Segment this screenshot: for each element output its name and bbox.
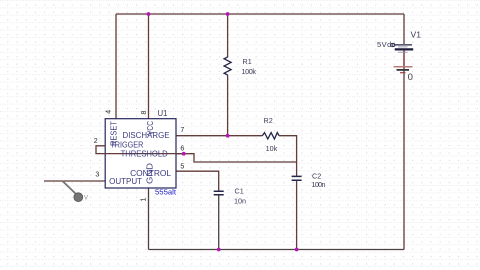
svg-text:R1: R1 — [243, 57, 252, 66]
voltage probe marker V at output — [63, 181, 89, 202]
svg-text:2: 2 — [94, 138, 98, 145]
svg-text:10k: 10k — [266, 144, 278, 153]
svg-text:R2: R2 — [264, 116, 273, 125]
node junction dot C2/bottom rail — [295, 248, 299, 252]
wire V1 plus lead — [403, 14, 405, 44]
battery V1 5Vdc source — [377, 30, 421, 52]
svg-text:C1: C1 — [235, 187, 244, 196]
node junction dot C1/bottom rail — [217, 248, 221, 252]
wire R2 right lead and C2 branch down — [279, 136, 297, 177]
svg-text:555alt: 555alt — [155, 188, 177, 197]
capacitor C2 — [292, 176, 302, 180]
node junction dot R1/pin7 — [226, 134, 230, 138]
wire C1 bottom lead — [218, 195, 220, 250]
svg-text:VCC: VCC — [145, 121, 155, 135]
node junction dot R1/top rail — [226, 12, 230, 16]
ground 0 symbol — [394, 67, 413, 83]
svg-text:V: V — [84, 196, 88, 202]
svg-text:3: 3 — [95, 172, 99, 179]
svg-text:5: 5 — [180, 164, 184, 171]
resistor R1 — [224, 57, 231, 75]
wire C2 bottom lead — [296, 180, 298, 249]
wire pin2 trigger loop to threshold (crosses body) — [96, 146, 184, 154]
wire top rail VCC net — [116, 13, 404, 15]
svg-text:THRESHOLD: THRESHOLD — [121, 149, 168, 159]
resistor R2 — [262, 133, 279, 139]
wire R1 top lead — [227, 14, 229, 57]
svg-text:GND: GND — [144, 163, 154, 184]
wire R1 bottom lead to pin7 net — [227, 75, 229, 136]
svg-text:5Vdc: 5Vdc — [377, 40, 396, 49]
wire pin5 to C1 top — [176, 171, 219, 191]
pin number labels — [94, 110, 185, 202]
svg-text:RESET: RESET — [109, 120, 119, 146]
svg-text:4: 4 — [106, 110, 113, 114]
svg-text:0: 0 — [408, 72, 413, 83]
op-amp U1 555 timer body — [105, 119, 176, 188]
capacitor C1 — [214, 191, 224, 194]
wire right side down from ground to bottom rail — [403, 67, 405, 250]
svg-text:100k: 100k — [242, 67, 257, 76]
node junction dot pin6/threshold — [182, 152, 186, 156]
wire V1 minus to ground node — [403, 50, 405, 66]
U1 pin name labels — [109, 120, 172, 186]
wire pin3 output — [44, 180, 105, 182]
svg-text:OUTPUT: OUTPUT — [109, 176, 143, 186]
svg-text:V1: V1 — [411, 30, 422, 39]
wire pin8 to top rail — [148, 14, 150, 119]
wire pin6 stub and step to C2 node — [176, 154, 297, 162]
wire bottom rail ground net — [149, 249, 405, 251]
wire pin4 to top rail — [115, 14, 117, 119]
svg-text:100n: 100n — [312, 180, 326, 189]
svg-text:7: 7 — [180, 127, 184, 134]
node junction dot pin8/top rail — [147, 12, 151, 16]
svg-text:C2: C2 — [312, 171, 321, 180]
wire pin1 to bottom rail — [148, 188, 150, 250]
svg-text:1: 1 — [140, 198, 147, 202]
svg-text:8: 8 — [141, 111, 148, 115]
svg-text:6: 6 — [180, 146, 184, 153]
svg-text:U1: U1 — [158, 109, 168, 118]
svg-text:10n: 10n — [234, 196, 246, 205]
wire pin7 to R1/R2 node — [176, 135, 262, 137]
